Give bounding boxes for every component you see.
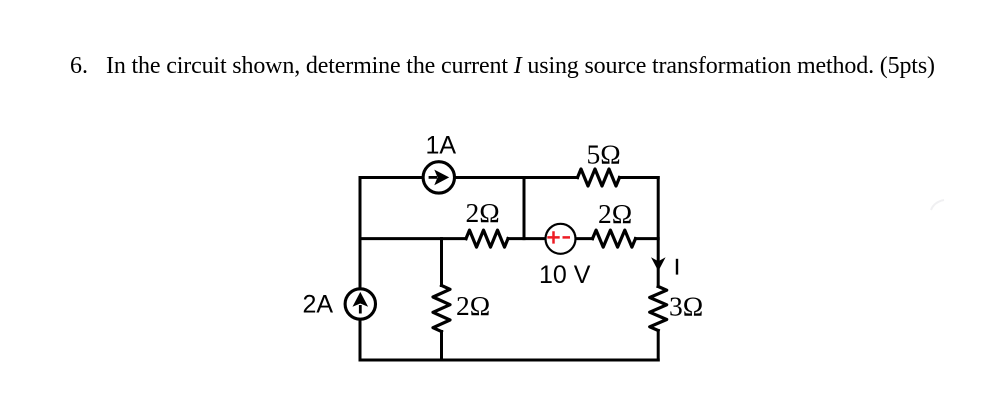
label I [676,259,678,275]
current source I2 2A circle [345,289,375,319]
current arrow I [651,257,666,271]
wire bottom [360,359,658,362]
wire left side (through 2A source) [359,178,362,361]
label 3 ohm [669,291,703,322]
wire branch vertical lower [440,332,443,361]
faint scan artifact arc [931,200,944,210]
label 2 ohm vertical [456,290,490,321]
label 2A [303,291,334,319]
wire right side lower [657,331,660,361]
svg-text:2Ω: 2Ω [466,197,500,228]
label 1A [426,132,457,160]
resistor R2 horizontal left 2ohm [466,230,508,247]
voltage source V1 10V circle [546,224,576,254]
wire branch vertical (middle node down) [440,239,443,286]
svg-text:2Ω: 2Ω [456,290,490,321]
svg-text:6.: 6. [70,53,88,79]
resistor R5 5ohm [578,169,620,186]
label 2 ohm left [466,197,500,228]
wire top right [620,176,659,179]
label 10 V [539,261,591,289]
wire middle right [636,237,659,240]
wire middle center (to 10V source) [508,237,593,240]
svg-text:In the circuit shown, determin: In the circuit shown, determine the curr… [106,53,935,79]
wire top left (node A to 1A source to node B) [360,176,578,179]
resistor R3 3ohm [650,287,667,331]
wire middle left [360,237,466,240]
label 5 ohm [587,139,621,170]
resistor R2 horizontal right 2ohm [593,230,636,247]
resistor R2 vertical 2ohm [433,286,450,332]
svg-text:2A: 2A [303,291,334,319]
svg-text:1A: 1A [426,132,457,160]
wire middle vertical (top node to middle node) [523,178,526,239]
svg-text:5Ω: 5Ω [587,139,621,170]
current source I1 1A circle [423,162,454,193]
label 2 ohm right [598,198,632,229]
problem statement text [70,53,935,79]
svg-text:2Ω: 2Ω [598,198,632,229]
svg-text:3Ω: 3Ω [669,291,703,322]
svg-text:10 V: 10 V [539,261,591,289]
wire right side upper [657,178,660,287]
